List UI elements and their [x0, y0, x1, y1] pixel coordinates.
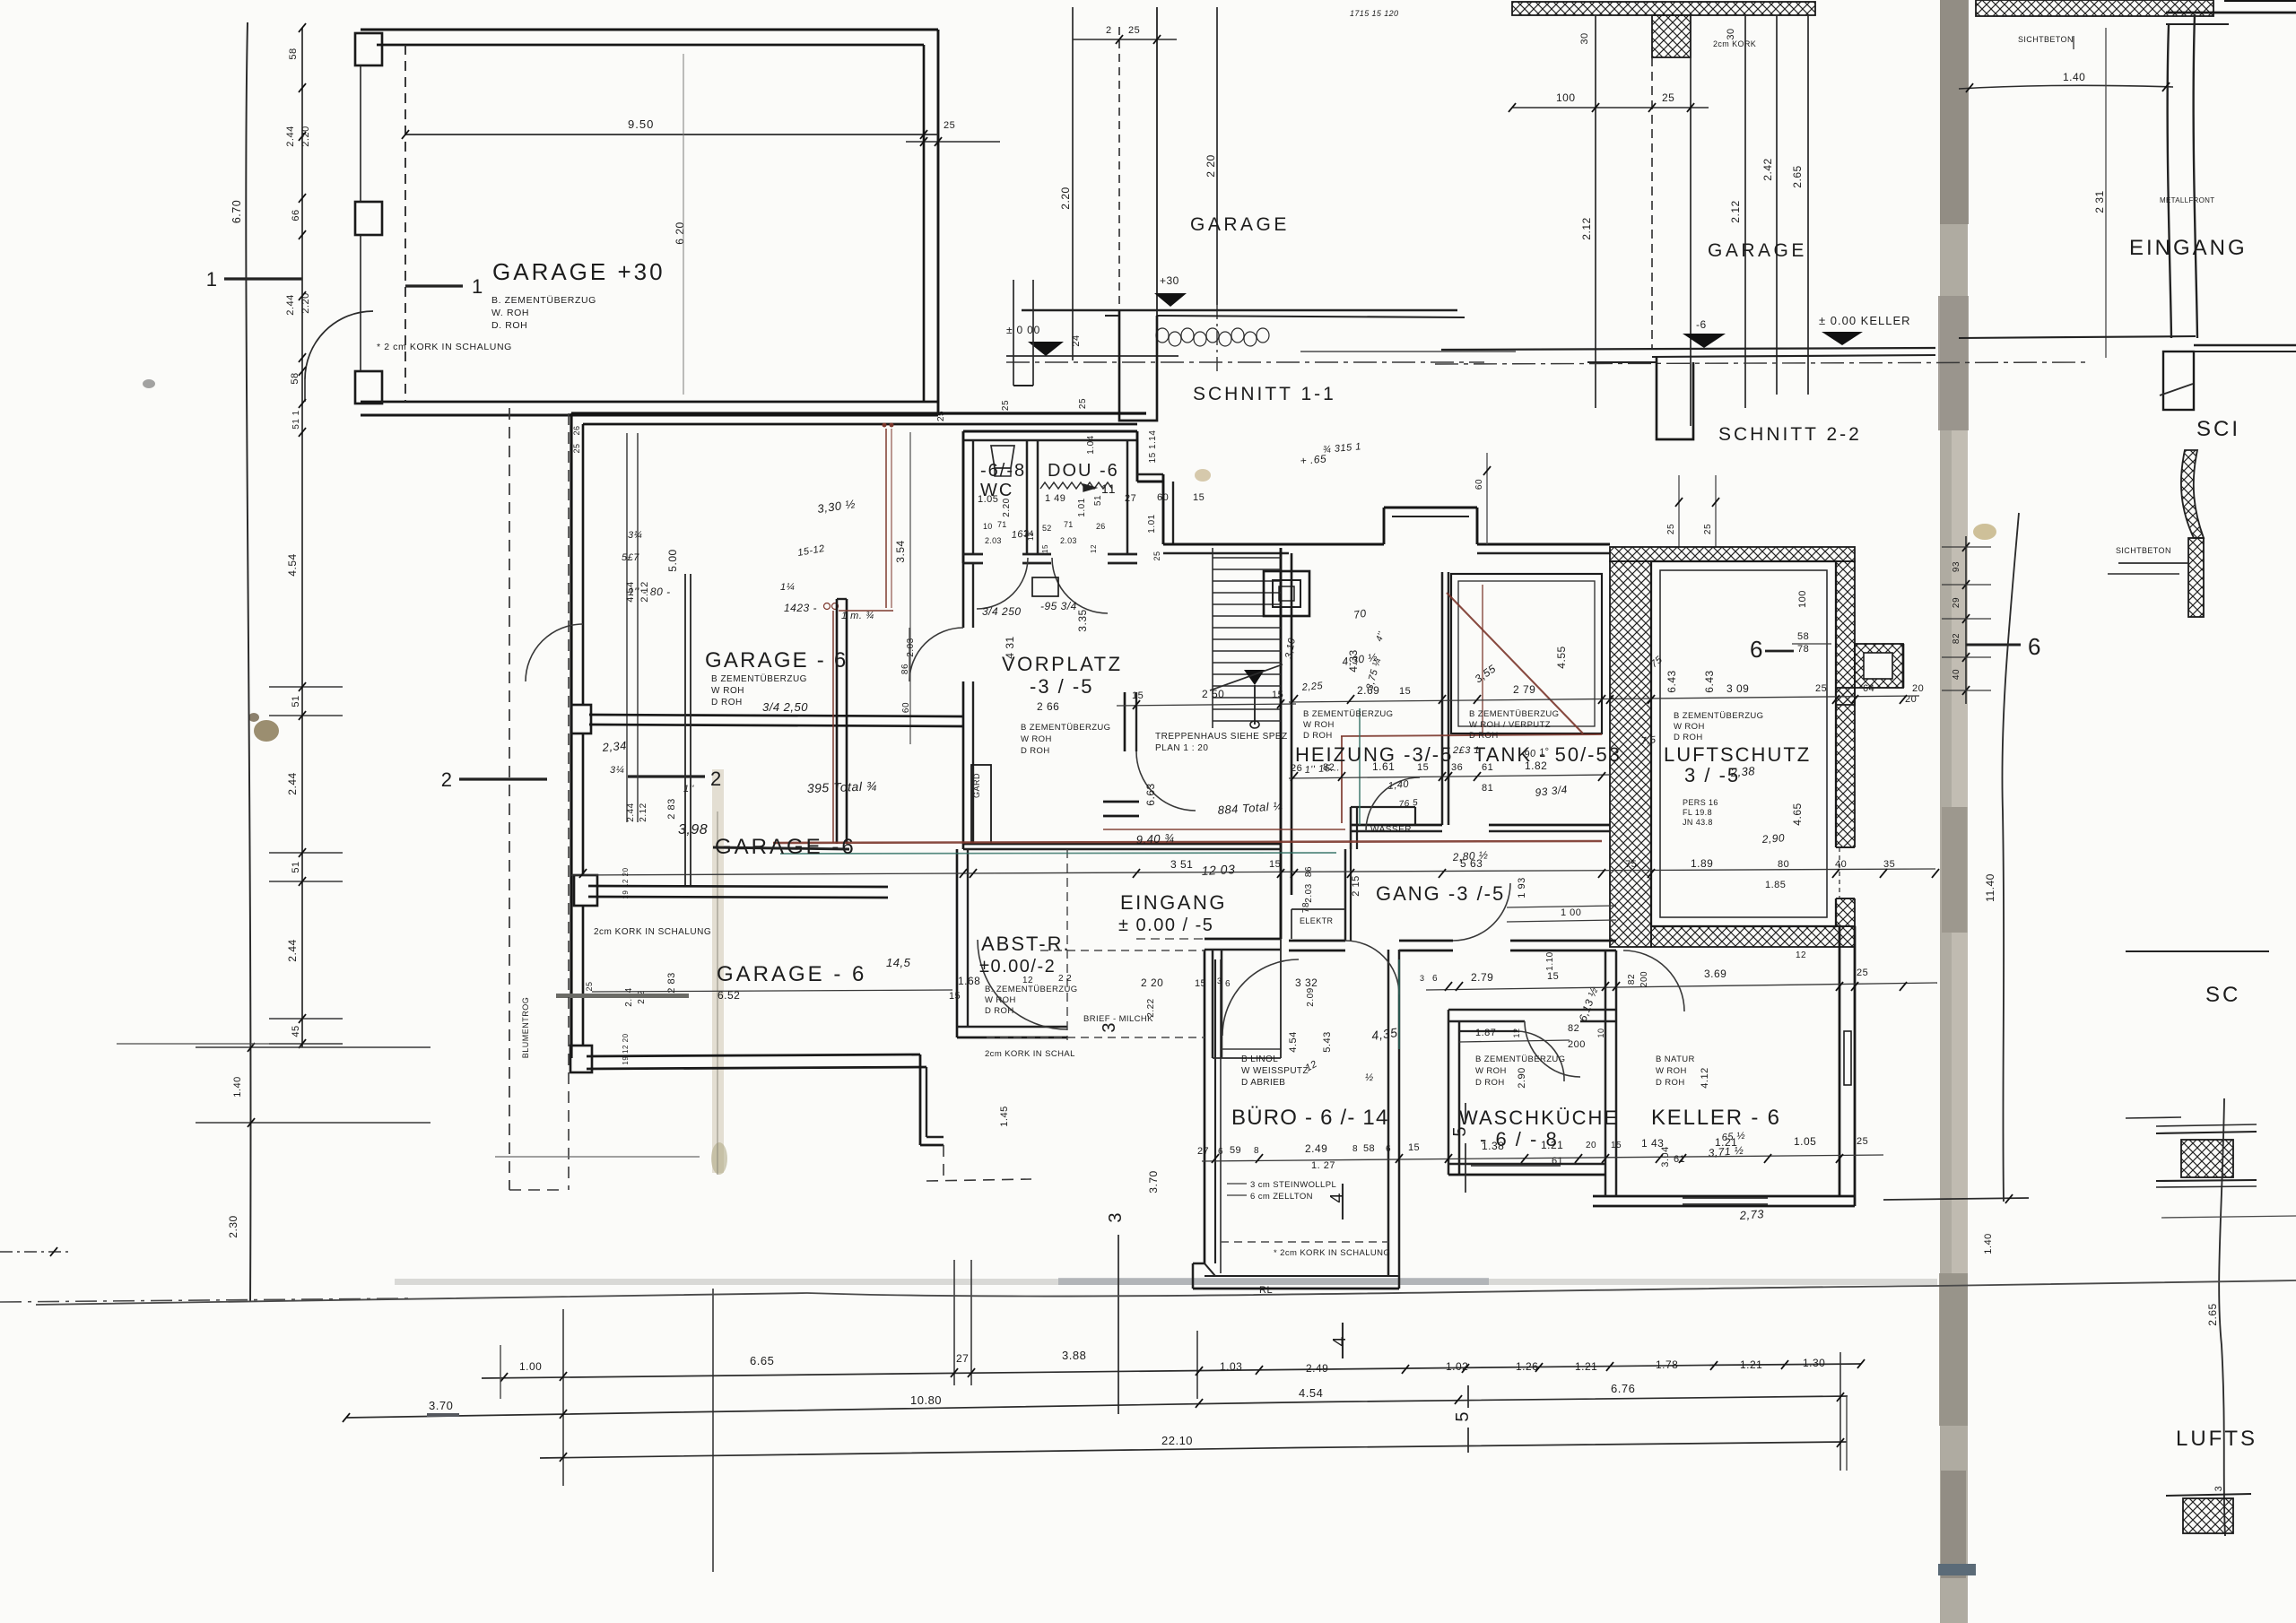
svg-text:100: 100 [1556, 91, 1576, 104]
svg-text:6.65: 6.65 [750, 1354, 774, 1367]
luftschutz bump outline [1902, 644, 1905, 688]
scan seam vertical right [1940, 0, 1968, 1623]
svg-text:82: 82 [1568, 1023, 1579, 1034]
svg-text:6 20: 6 20 [674, 221, 686, 244]
svg-text:± 0 00: ± 0 00 [1006, 324, 1040, 336]
long dim line y974 [571, 869, 1935, 875]
svg-text:B ZEMENTÜBERZUG: B ZEMENTÜBERZUG [1021, 723, 1110, 733]
svg-text:10: 10 [983, 522, 993, 531]
svg-text:61: 61 [1552, 1156, 1563, 1167]
svg-text:15: 15 [1408, 1142, 1420, 1153]
svg-text:200: 200 [1639, 971, 1649, 987]
svg-text:2.03: 2.03 [1304, 883, 1314, 902]
svg-text:ELEKTR: ELEKTR [1300, 916, 1334, 925]
step shape below eingang [2163, 352, 2194, 410]
svg-text:3: 3 [2213, 1486, 2224, 1492]
svg-text:1.40: 1.40 [232, 1076, 243, 1097]
svg-text:2.12: 2.12 [1729, 200, 1742, 222]
svg-text:D ROH: D ROH [1469, 731, 1499, 741]
svg-text:6: 6 [1386, 1144, 1391, 1154]
waschk bottom [1448, 1163, 1605, 1166]
svg-text:PLAN 1 : 20: PLAN 1 : 20 [1155, 743, 1208, 753]
svg-text:20: 20 [1586, 1141, 1596, 1150]
svg-text:1715 15 120: 1715 15 120 [1350, 9, 1398, 18]
plan left wall [570, 413, 572, 1058]
schnitt 2-2 dims [1512, 107, 1709, 108]
svg-text:D ROH: D ROH [1303, 731, 1333, 741]
svg-text:2.30: 2.30 [227, 1215, 239, 1237]
svg-text:2.20: 2.20 [1002, 498, 1012, 516]
ground lines [1022, 309, 1457, 311]
svg-text:2 50: 2 50 [1202, 688, 1224, 700]
waschk dims [1459, 1040, 1570, 1042]
svg-text:9.50: 9.50 [628, 117, 654, 131]
svg-text:1¼: 1¼ [780, 582, 795, 593]
svg-text:2.90: 2.90 [1517, 1067, 1527, 1088]
svg-text:5: 5 [1450, 1126, 1470, 1136]
svg-text:15: 15 [1193, 492, 1205, 503]
door arcs [977, 558, 1028, 609]
svg-text:2 83: 2 83 [666, 798, 677, 819]
plan bottom dim line y1293 [1202, 1155, 1883, 1161]
svg-text:10.80: 10.80 [910, 1393, 942, 1407]
svg-text:* 2cm KORK IN SCHALUNG: * 2cm KORK IN SCHALUNG [1274, 1248, 1390, 1258]
wc bottom wall w/ openings [963, 553, 983, 556]
svg-text:B. ZEMENTÜBERZUG: B. ZEMENTÜBERZUG [491, 295, 596, 306]
svg-text:1 m. ¾: 1 m. ¾ [841, 611, 874, 621]
svg-text:D ABRIEB: D ABRIEB [1241, 1078, 1285, 1088]
svg-text:15: 15 [1272, 690, 1283, 700]
heizung left wall lower part [1280, 895, 1283, 939]
svg-text:W ROH: W ROH [1303, 720, 1335, 730]
svg-text:66: 66 [291, 209, 301, 221]
svg-text:+30: +30 [1160, 274, 1179, 287]
svg-text:2.20: 2.20 [300, 126, 311, 146]
eingang top wall [1136, 843, 1281, 846]
stair arrow [1244, 670, 1265, 685]
svg-text:B ZEMENTÜBERZUG: B ZEMENTÜBERZUG [1303, 709, 1393, 719]
svg-text:1.04: 1.04 [1086, 435, 1096, 454]
luftschutz hatched walls [1610, 547, 1855, 561]
svg-text:6: 6 [1750, 636, 1763, 663]
svg-text:WC: WC [980, 481, 1013, 500]
svg-text:4.54: 4.54 [625, 581, 636, 602]
svg-text:4.54: 4.54 [286, 553, 299, 576]
svg-text:2.20: 2.20 [300, 292, 311, 313]
svg-text:58: 58 [1797, 631, 1809, 642]
svg-text:11.40: 11.40 [1984, 873, 1996, 902]
svg-text:ABST-R.: ABST-R. [981, 933, 1071, 955]
svg-text:2cm KORK IN SCHAL: 2cm KORK IN SCHAL [985, 1049, 1075, 1059]
svg-text:15: 15 [1611, 1141, 1622, 1150]
svg-text:78: 78 [1797, 644, 1809, 655]
svg-text:3: 3 [1217, 976, 1222, 985]
svg-text:15: 15 [949, 991, 961, 1002]
garage piers left [355, 33, 382, 65]
dashed property lines [509, 408, 510, 1190]
svg-text:BLUMENTROG: BLUMENTROG [521, 997, 530, 1059]
luftschutz inner lines [1651, 561, 1836, 926]
small bottom verticals [500, 1345, 501, 1399]
svg-text:71: 71 [1064, 520, 1074, 529]
svg-text:6: 6 [1225, 979, 1231, 989]
svg-text:20: 20 [1912, 683, 1924, 694]
svg-text:2 20: 2 20 [1205, 154, 1217, 177]
svg-text:4.54: 4.54 [1288, 1031, 1299, 1052]
left dim chain line [301, 28, 303, 1047]
garage section verticals [626, 433, 628, 822]
svg-text:51: 51 [1093, 495, 1103, 506]
svg-text:-3 / -5: -3 / -5 [1030, 675, 1093, 698]
svg-text:4.12: 4.12 [1700, 1067, 1710, 1088]
right hatch block 2 [2183, 1498, 2233, 1533]
gang bottom wall [1289, 940, 1345, 942]
svg-text:2 83: 2 83 [666, 972, 677, 993]
svg-text:2.03: 2.03 [985, 536, 1002, 545]
svg-text:81: 81 [1482, 783, 1493, 794]
svg-text:EINGANG: EINGANG [2129, 236, 2248, 260]
dou sink [1032, 577, 1058, 596]
svg-text:4.65: 4.65 [1791, 803, 1804, 825]
svg-text:B ZEMENTÜBERZUG: B ZEMENTÜBERZUG [1674, 711, 1763, 721]
svg-text:82: 82 [1627, 974, 1637, 985]
svg-text:26: 26 [572, 425, 581, 435]
svg-text:6.43: 6.43 [1703, 670, 1716, 692]
svg-text:2.44: 2.44 [626, 803, 636, 821]
porch steps [1213, 1057, 1281, 1059]
stair treads [1213, 557, 1281, 559]
heizung dim line y781 [1289, 696, 1919, 702]
svg-text:3.35: 3.35 [1076, 609, 1089, 631]
waschk partition [1459, 1030, 1518, 1032]
dims above luftschutz [1678, 475, 1680, 547]
svg-text:5 63: 5 63 [1460, 857, 1483, 870]
svg-text:-6/-8: -6/-8 [980, 461, 1026, 481]
svg-text:1.87: 1.87 [1475, 1028, 1496, 1038]
svg-text:WASSER: WASSER [1370, 825, 1412, 835]
svg-text:2.12: 2.12 [1580, 217, 1593, 239]
abst-r left wall [956, 849, 959, 1037]
svg-text:25: 25 [1815, 683, 1827, 694]
svg-text:3¼: 3¼ [628, 530, 642, 541]
right hatch block 1 [2181, 1140, 2233, 1177]
svg-text:26: 26 [1096, 522, 1106, 531]
svg-text:2,25: 2,25 [1300, 681, 1324, 693]
svg-text:6.70: 6.70 [230, 200, 243, 223]
svg-text:2.12: 2.12 [639, 803, 648, 821]
svg-text:35: 35 [1883, 859, 1895, 870]
chimney double square [1264, 571, 1309, 616]
25 dim near garage wall [906, 141, 1000, 143]
svg-text:D. ROH: D. ROH [491, 320, 527, 331]
section mark 1 [224, 277, 302, 280]
svg-text:1.40: 1.40 [2063, 71, 2085, 83]
svg-text:W WEISSPUTZ: W WEISSPUTZ [1241, 1066, 1309, 1076]
svg-text:78: 78 [1301, 902, 1311, 913]
svg-text:EINGANG: EINGANG [1120, 891, 1227, 914]
svg-text:GARAGE: GARAGE [1190, 214, 1290, 235]
wasser niche [1350, 807, 1352, 849]
schnitt 1-1 top dim [1073, 39, 1177, 40]
wc toilet [991, 446, 1014, 468]
svg-text:±0.00/-2: ±0.00/-2 [979, 957, 1056, 976]
svg-text:4: 4 [1327, 1193, 1347, 1202]
svg-text:5.43: 5.43 [1322, 1031, 1333, 1052]
svg-text:75: 75 [1625, 859, 1637, 870]
svg-text:51: 51 [291, 861, 301, 872]
svg-text:86: 86 [900, 664, 910, 674]
schnitt 1-1 vertical lines [1072, 7, 1074, 360]
foundation pier [1119, 310, 1157, 421]
rubble stones [1156, 328, 1169, 343]
road/property lines bottom [36, 1280, 2296, 1305]
svg-text:½: ½ [1365, 1072, 1374, 1083]
svg-text:SCHNITT 2-2: SCHNITT 2-2 [1718, 424, 1862, 445]
svg-text:W ROH: W ROH [1021, 734, 1052, 744]
entry door arc [978, 940, 1067, 1029]
red tank diagonal [1447, 593, 1583, 733]
svg-text:3.70: 3.70 [429, 1399, 453, 1412]
wc block walls [963, 430, 1137, 433]
right long curve lower [2219, 1098, 2225, 1536]
svg-text:25: 25 [1857, 968, 1868, 978]
svg-text:GARD: GARD [972, 773, 981, 798]
garage1 interior double vertical [684, 574, 686, 886]
svg-text:1: 1 [472, 275, 483, 298]
svg-text:6: 6 [1218, 1147, 1223, 1157]
svg-text:2.12: 2.12 [639, 581, 650, 602]
svg-text:B. ZEMENTÜBERZUG: B. ZEMENTÜBERZUG [985, 985, 1078, 994]
svg-text:W ROH: W ROH [985, 995, 1016, 1005]
waschk left wall [1448, 1010, 1450, 1175]
svg-text:2.44: 2.44 [286, 772, 299, 794]
entry porch walls [1205, 938, 1281, 941]
svg-text:6.76: 6.76 [1611, 1382, 1635, 1395]
heizung dim line y866 [1289, 775, 1610, 778]
svg-text:3.69: 3.69 [1704, 968, 1726, 980]
svg-text:40: 40 [1952, 669, 1961, 680]
svg-text:D ROH: D ROH [985, 1006, 1014, 1016]
svg-text:7,5: 7,5 [1640, 734, 1657, 747]
svg-text:40: 40 [1835, 859, 1847, 870]
svg-text:1 49: 1 49 [1045, 493, 1065, 504]
svg-text:1: 1 [206, 268, 217, 291]
svg-text:15: 15 [1132, 690, 1144, 701]
dim line y1026 gang [1507, 920, 1616, 922]
svg-text:10: 10 [1596, 1028, 1605, 1037]
svg-text:30: 30 [1726, 28, 1736, 39]
svg-text:22.10: 22.10 [1161, 1434, 1193, 1447]
svg-text:6: 6 [1432, 974, 1438, 984]
tank inner box [1451, 574, 1602, 733]
svg-text:TREPPENHAUS SIEHE SPEZ: TREPPENHAUS SIEHE SPEZ [1155, 732, 1288, 742]
svg-text:1.68: 1.68 [958, 975, 980, 987]
svg-text:GARAGE - 6: GARAGE - 6 [705, 648, 848, 673]
svg-text:2.44: 2.44 [285, 126, 296, 146]
svg-text:2 2: 2 2 [1058, 974, 1072, 984]
svg-text:58: 58 [288, 48, 299, 59]
keller-waschk divider [1605, 950, 1607, 1196]
svg-text:12: 12 [1090, 544, 1098, 553]
svg-text:HEIZUNG -3/-5: HEIZUNG -3/-5 [1295, 743, 1453, 766]
svg-text:2 66: 2 66 [1037, 700, 1059, 713]
svg-text:DOU -6: DOU -6 [1048, 461, 1119, 481]
svg-text:15: 15 [1269, 859, 1281, 870]
svg-text:25: 25 [944, 120, 955, 131]
svg-text:1. 27: 1. 27 [1311, 1160, 1335, 1171]
far-right top hatch band [1976, 0, 2213, 16]
svg-text:B NATUR: B NATUR [1656, 1055, 1695, 1064]
gang top wall [1351, 824, 1442, 827]
svg-text:25: 25 [1152, 551, 1161, 560]
dou shower zigzag [1040, 482, 1112, 489]
svg-text:1 00: 1 00 [1561, 907, 1581, 918]
svg-text:1.01: 1.01 [1147, 514, 1157, 533]
svg-text:2.65: 2.65 [1791, 165, 1804, 187]
svg-text:25: 25 [1662, 91, 1674, 104]
svg-text:4: 4 [1330, 1336, 1350, 1346]
svg-text:GARAGE +30: GARAGE +30 [492, 258, 665, 285]
svg-text:14,5: 14,5 [886, 956, 911, 969]
svg-text:TANK - 50/-53: TANK - 50/-53 [1474, 743, 1622, 766]
garage1/2 divider [589, 715, 963, 716]
left chain lower [269, 686, 343, 688]
svg-text:SICHTBETON: SICHTBETON [2018, 35, 2074, 44]
svg-text:GANG -3 /-5: GANG -3 /-5 [1376, 882, 1505, 905]
svg-text:3/4 2,50: 3/4 2,50 [762, 700, 808, 714]
svg-text:100: 100 [1797, 590, 1808, 608]
schnitt 2-2 top hatch band [1512, 2, 1815, 15]
abst-r / eingang divider [1066, 849, 1068, 1040]
vorplatz-eingang wall [963, 843, 1136, 846]
svg-text:SCHNITT 1-1: SCHNITT 1-1 [1193, 384, 1336, 404]
svg-text:3 32: 3 32 [1295, 976, 1318, 989]
svg-text:3 cm STEINWOLLPL: 3 cm STEINWOLLPL [1250, 1180, 1336, 1190]
svg-text:8: 8 [1254, 1146, 1259, 1156]
buero bottom bay [1205, 1263, 1215, 1276]
eingang right wall curved double [2168, 25, 2171, 338]
buero door arc top [1222, 959, 1299, 1036]
svg-text:W ROH: W ROH [1475, 1066, 1507, 1076]
property line curved left [246, 22, 250, 1302]
svg-text:3¼: 3¼ [610, 765, 624, 776]
svg-text:2.44: 2.44 [286, 939, 299, 961]
svg-text:60: 60 [1157, 492, 1169, 503]
svg-text:3,98: 3,98 [678, 822, 708, 838]
svg-text:30: 30 [1579, 32, 1590, 44]
svg-text:29: 29 [1952, 597, 1961, 608]
svg-text:395 Total ¾: 395 Total ¾ [807, 778, 878, 795]
svg-text:FL 19.8: FL 19.8 [1683, 808, 1712, 817]
svg-text:JN 43.8: JN 43.8 [1683, 818, 1713, 827]
svg-text:VORPLATZ: VORPLATZ [1002, 653, 1123, 675]
svg-text:12 03: 12 03 [1201, 862, 1235, 878]
svg-text:1.01: 1.01 [1077, 498, 1087, 516]
svg-text:SC: SC [2205, 983, 2240, 1007]
svg-text:PERS 16: PERS 16 [1683, 798, 1718, 807]
svg-text:45: 45 [291, 1025, 301, 1037]
svg-text:51: 51 [291, 695, 301, 707]
svg-text:15: 15 [1399, 686, 1411, 697]
svg-text:1.21: 1.21 [1715, 1136, 1737, 1149]
svg-text:2.69: 2.69 [1357, 684, 1379, 697]
garage dashed inner line [404, 45, 406, 402]
svg-text:1.45: 1.45 [999, 1106, 1010, 1126]
vorplatz right partial wall / stair edge [1124, 692, 1126, 751]
svg-text:25: 25 [1078, 398, 1088, 409]
svg-text:2.20: 2.20 [1059, 187, 1072, 209]
svg-text:64: 64 [1863, 683, 1874, 694]
schnitt guide verticals bottom [562, 1309, 564, 1486]
svg-text:1.05: 1.05 [1794, 1135, 1816, 1148]
svg-text:2 79: 2 79 [1513, 683, 1535, 696]
svg-text:11: 11 [1101, 482, 1117, 496]
svg-text:19 12 20: 19 12 20 [622, 867, 630, 898]
svg-text:B ZEMENTÜBERZUG: B ZEMENTÜBERZUG [1469, 709, 1559, 719]
svg-text:27: 27 [956, 1352, 969, 1365]
svg-text:D ROH: D ROH [711, 698, 743, 707]
garage door arc left wall [526, 624, 583, 681]
vorplatz / garage inner walls [836, 599, 839, 844]
svg-text:15: 15 [1041, 544, 1049, 553]
wavy hatched wall strip right [2181, 450, 2204, 538]
svg-text:D ROH: D ROH [1475, 1078, 1505, 1088]
svg-text:2.79: 2.79 [1471, 971, 1493, 984]
svg-text:2,34: 2,34 [601, 739, 628, 754]
svg-text:1.89: 1.89 [1691, 857, 1713, 870]
svg-text:2: 2 [1106, 25, 1112, 36]
svg-text:4.54: 4.54 [1299, 1386, 1323, 1400]
svg-text:2.49: 2.49 [1305, 1142, 1327, 1155]
svg-text:-6: -6 [1696, 318, 1707, 331]
schnitt 1-1 left foundation [1013, 280, 1014, 386]
schnitt 2-2 verticals [1595, 15, 1596, 408]
svg-text:25: 25 [936, 411, 946, 421]
gard niche [971, 765, 991, 844]
dashed lines buero [987, 1037, 1205, 1038]
svg-text:12: 12 [1796, 950, 1806, 960]
sw corner walls [919, 1055, 922, 1145]
svg-text:LUFTS: LUFTS [2176, 1427, 2257, 1451]
gang-eingang divider [1344, 849, 1347, 941]
svg-text:1 93: 1 93 [1517, 877, 1527, 898]
svg-text:51 1: 51 1 [291, 410, 301, 429]
svg-text:25: 25 [1666, 524, 1676, 534]
svg-text:3.88: 3.88 [1062, 1349, 1086, 1362]
svg-text:6.63: 6.63 [1144, 783, 1157, 805]
svg-text:W ROH: W ROH [1674, 722, 1705, 732]
svg-text:1'': 1'' [683, 784, 694, 794]
red pipes vorplatz [885, 429, 887, 608]
svg-text:-95 3/4: -95 3/4 [1040, 600, 1077, 612]
svg-text:3: 3 [1420, 974, 1424, 983]
svg-text:5.00: 5.00 [666, 549, 679, 571]
svg-text:27: 27 [1125, 493, 1136, 504]
bottom long dim lines [482, 1364, 1861, 1378]
svg-text:52: 52 [1042, 524, 1052, 533]
svg-text:1.26: 1.26 [1516, 1360, 1538, 1373]
stair dim line y785 [1117, 704, 1296, 706]
section mark lines bottom [1118, 1235, 1119, 1414]
right small dim chain [1965, 536, 1967, 704]
svg-text:GARAGE: GARAGE [1708, 240, 1807, 261]
svg-text:3 51: 3 51 [1170, 858, 1193, 871]
svg-text:1.30: 1.30 [1803, 1357, 1825, 1369]
svg-text:25: 25 [585, 981, 594, 991]
buero walls [1204, 950, 1206, 1263]
svg-text:1.21: 1.21 [1740, 1358, 1762, 1371]
svg-text:LUFTSCHUTZ: LUFTSCHUTZ [1664, 743, 1811, 766]
